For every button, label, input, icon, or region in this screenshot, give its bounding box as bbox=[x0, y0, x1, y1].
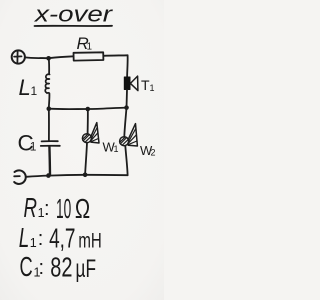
svg-text:1: 1 bbox=[87, 42, 93, 53]
svg-text:L: L bbox=[19, 222, 30, 253]
label T1 bbox=[141, 77, 155, 93]
resistor R1 bbox=[74, 52, 104, 60]
value C1 bbox=[20, 251, 97, 283]
wire R1 to top-right corner bbox=[103, 54, 127, 57]
wire W2 branch top bbox=[124, 108, 126, 137]
svg-text:4,7: 4,7 bbox=[49, 223, 75, 254]
svg-text:1: 1 bbox=[30, 140, 37, 154]
svg-text:C: C bbox=[20, 251, 33, 282]
wire corner down to T1 bbox=[126, 55, 129, 77]
svg-text:2: 2 bbox=[151, 148, 156, 158]
wire T1 to node B bbox=[126, 90, 129, 108]
wire W2 branch bottom bbox=[125, 146, 127, 176]
svg-text:µF: µF bbox=[76, 255, 97, 283]
node A junction bbox=[46, 56, 51, 61]
node D junction bbox=[86, 107, 91, 112]
capacitor C1 bbox=[48, 109, 50, 141]
wire W1 branch top bbox=[87, 109, 89, 134]
svg-text:1: 1 bbox=[31, 84, 38, 98]
node C junction bbox=[47, 106, 52, 111]
wire W1 branch bottom bbox=[85, 143, 87, 175]
label L1 bbox=[19, 75, 38, 100]
node F junction bbox=[83, 173, 88, 178]
label C1 bbox=[18, 131, 37, 156]
svg-text:mH: mH bbox=[78, 230, 101, 253]
node E junction bbox=[46, 173, 51, 178]
svg-text:82: 82 bbox=[50, 252, 72, 283]
svg-text:Ω: Ω bbox=[75, 193, 90, 224]
svg-text:1: 1 bbox=[114, 144, 119, 154]
label W1 bbox=[103, 140, 119, 155]
svg-text:1: 1 bbox=[150, 83, 155, 93]
wire plus to node A bbox=[25, 56, 48, 59]
label W2 bbox=[140, 143, 156, 158]
value R1 bbox=[24, 192, 91, 224]
title x-over bbox=[34, 2, 114, 27]
svg-text::: : bbox=[38, 228, 44, 250]
title underline bbox=[35, 25, 113, 27]
woofer W1 bbox=[82, 123, 99, 143]
wire node A to R1 bbox=[49, 56, 74, 58]
wire bottom rail bbox=[26, 175, 127, 177]
svg-text:L: L bbox=[19, 75, 31, 100]
svg-text:x-over: x-over bbox=[34, 2, 114, 27]
wire mid rail bbox=[49, 108, 127, 110]
svg-text:R: R bbox=[24, 192, 38, 223]
node B junction bbox=[124, 105, 129, 110]
svg-text::: : bbox=[39, 257, 45, 279]
label R1 bbox=[77, 34, 93, 53]
svg-text:10: 10 bbox=[56, 193, 71, 224]
terminal minus bbox=[14, 170, 26, 184]
svg-text:1: 1 bbox=[30, 236, 37, 250]
tweeter T1 bbox=[124, 76, 138, 91]
svg-text::: : bbox=[44, 198, 50, 220]
value L1 bbox=[19, 222, 102, 254]
inductor L1 bbox=[48, 58, 50, 74]
woofer W2 bbox=[120, 124, 138, 146]
terminal plus bbox=[12, 50, 25, 63]
